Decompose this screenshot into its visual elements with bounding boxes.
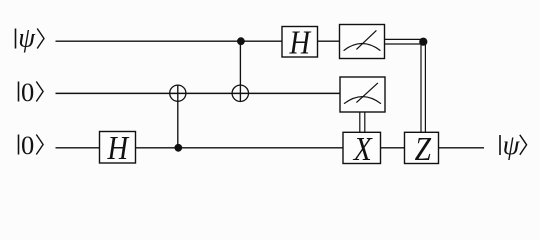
wire CNOT1 vertical — [177, 85, 179, 148]
label ket 0 (input q2) — [19, 130, 44, 160]
meter M1 (q0) — [340, 25, 385, 59]
node CNOT1 control dot — [174, 144, 182, 152]
CNOT1 target — [170, 85, 186, 101]
classical double wire M2 down to X — [359, 112, 361, 132]
svg-text:X: X — [352, 130, 373, 167]
label ket psi (input q0) — [16, 23, 45, 53]
gate X (q2) — [343, 130, 381, 167]
gate H q0 — [282, 23, 318, 61]
wire CNOT2 vertical — [239, 41, 241, 101]
CNOT2 target — [232, 85, 248, 101]
wire q1 (middle) — [56, 92, 341, 94]
classical double wire down to Z — [420, 42, 422, 133]
gate H q2 — [100, 129, 136, 167]
svg-text:ψ: ψ — [503, 130, 521, 160]
node classical junction dot — [419, 38, 427, 46]
meter M2 (q1) — [340, 77, 385, 112]
svg-text:Z: Z — [415, 130, 432, 167]
gate Z (q2) — [405, 130, 439, 167]
classical double wire M1 to node — [385, 38, 424, 40]
wire q2 (bottom) — [56, 147, 485, 149]
wire q0 (top) — [56, 40, 340, 42]
label ket 0 (input q1) — [19, 77, 44, 107]
svg-text:0: 0 — [21, 130, 34, 160]
svg-text:0: 0 — [21, 77, 34, 107]
svg-text:H: H — [107, 129, 130, 167]
label ket psi (output q2) — [500, 130, 527, 160]
svg-text:ψ: ψ — [18, 23, 36, 53]
svg-text:H: H — [289, 23, 312, 61]
node CNOT2 control dot — [237, 37, 245, 45]
